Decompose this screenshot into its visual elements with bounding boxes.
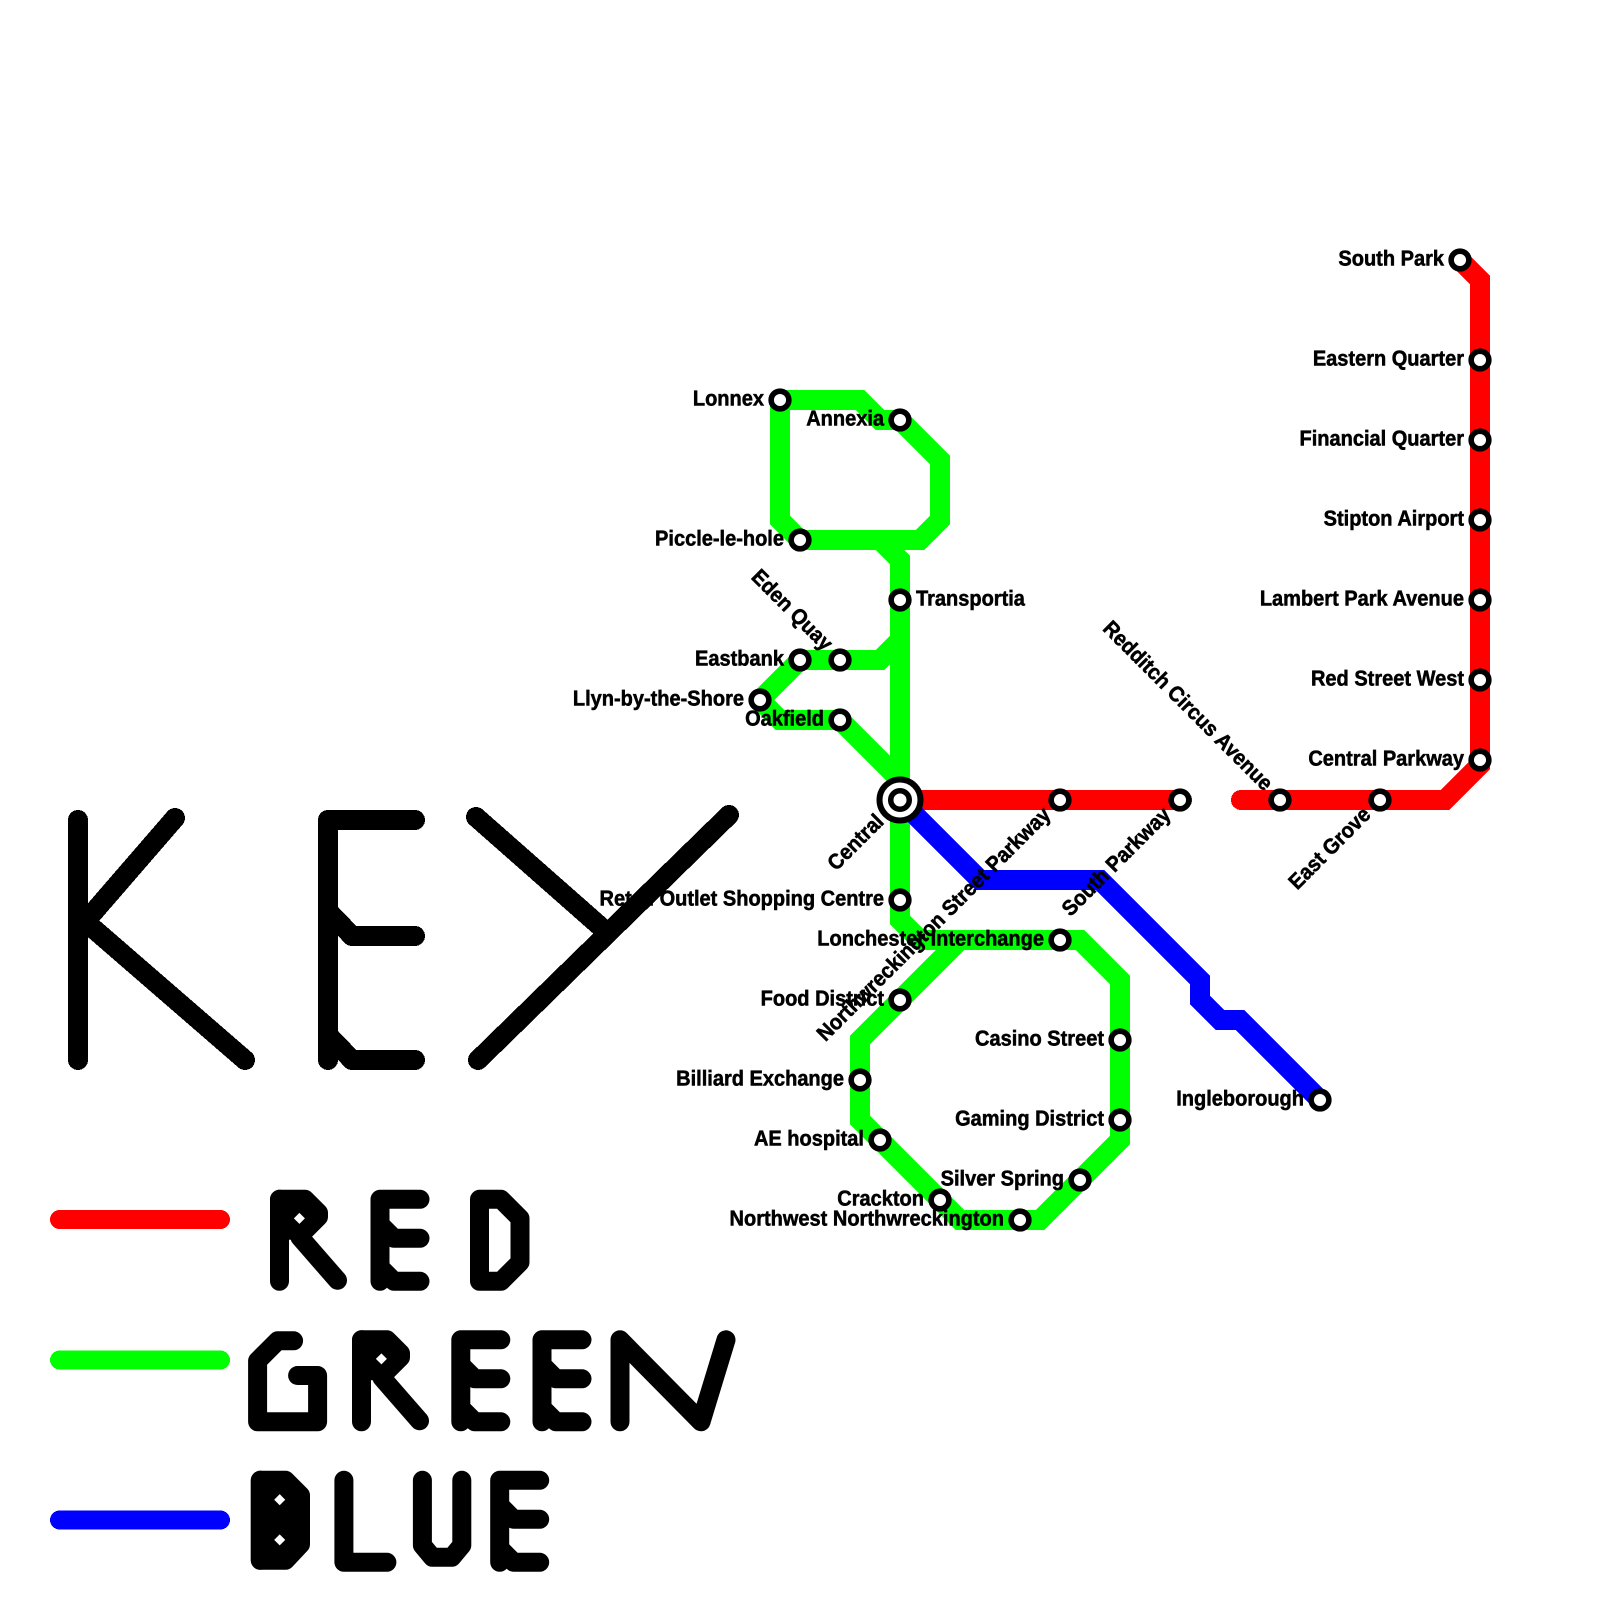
station Oakfield <box>831 711 849 729</box>
station Lonnex <box>771 391 789 409</box>
legend letter B <box>260 1480 300 1560</box>
legend red line swatch <box>60 1210 221 1229</box>
station Central Parkway <box>1471 751 1489 769</box>
svg-text:Stipton Airport: Stipton Airport <box>1324 507 1464 531</box>
STATIONS <box>751 251 1489 1229</box>
legend letter D <box>480 1199 521 1281</box>
svg-text:Financial Quarter: Financial Quarter <box>1300 427 1465 451</box>
wire green Piccle-le-hole-Transportia <box>800 540 900 600</box>
key letter K <box>78 818 245 1060</box>
wire green Lonchester-FoodDistrict <box>900 940 1060 1000</box>
wire green Casino-Gaming <box>1110 1040 1130 1120</box>
wire green Annexia-Piccle-le-hole loop right <box>800 420 940 540</box>
svg-text:Annexia: Annexia <box>806 407 885 431</box>
wire green EdenQuay-Eastbank <box>800 650 840 670</box>
wire green Billiard-FoodDistrict <box>860 1000 900 1080</box>
wire green Retail-Lonchester <box>900 900 1060 940</box>
station Billiard Exchange <box>851 1071 869 1089</box>
wire green SilverSpring-NWNorthwreckington <box>1020 1180 1080 1220</box>
station Piccle-le-hole <box>791 531 809 549</box>
BLUE LINE <box>900 800 1320 1100</box>
svg-text:Transportia: Transportia <box>916 587 1026 611</box>
station Ingleborough <box>1311 1091 1329 1109</box>
wire green AEhospital-Billiard <box>860 1080 880 1140</box>
KEY heading <box>78 815 729 1060</box>
wire green Eastbank-Llyn <box>760 660 800 700</box>
legend letter R <box>280 1199 319 1230</box>
legend word RED <box>280 1199 521 1281</box>
station Stipton Airport <box>1471 511 1489 529</box>
station Northwest Northwreckington <box>1011 1211 1029 1229</box>
legend green line swatch <box>60 1351 221 1370</box>
wire green Gaming-SilverSpring <box>1080 1120 1120 1180</box>
station Casino Street <box>1111 1031 1129 1049</box>
wire green Transportia-EdenQuay <box>840 600 900 660</box>
legend letter N <box>620 1340 726 1422</box>
wire green NWNorthwreckington-Crackton <box>940 1200 1020 1220</box>
legend letter G <box>258 1341 318 1422</box>
wire blue Central-Ingleborough <box>900 800 1320 1100</box>
station Gaming District <box>1111 1111 1129 1129</box>
legend letter U <box>422 1480 461 1557</box>
svg-text:Northwest Northwreckington: Northwest Northwreckington <box>730 1207 1004 1231</box>
wire green trunk Transportia-Central <box>890 600 910 800</box>
station Redditch Circus Avenue <box>1271 791 1289 809</box>
svg-text:Lambert Park Avenue: Lambert Park Avenue <box>1260 587 1464 611</box>
svg-text:Llyn-by-the-Shore: Llyn-by-the-Shore <box>573 687 744 711</box>
station Lambert Park Avenue <box>1471 591 1489 609</box>
station AE hospital <box>871 1131 889 1149</box>
station Food District <box>891 991 909 1009</box>
wire green Crackton-AEhospital <box>880 1140 940 1200</box>
station Red Street West <box>1471 671 1489 689</box>
station Annexia <box>891 411 909 429</box>
key letter Y <box>476 815 729 1060</box>
svg-text:Ingleborough: Ingleborough <box>1176 1087 1304 1111</box>
legend letter E2 <box>461 1340 501 1422</box>
svg-text:AE hospital: AE hospital <box>754 1127 864 1151</box>
station Eastern Quarter <box>1471 351 1489 369</box>
svg-text:Oakfield: Oakfield <box>745 707 824 731</box>
legend blue line swatch <box>60 1511 221 1530</box>
legend swatches <box>60 1220 221 1521</box>
wire green Lonnex-Piccle-le-hole left side <box>780 400 800 540</box>
station Transportia <box>891 591 909 609</box>
wire red Central-SouthParkway segment <box>900 790 1182 810</box>
wire green Lonnex-Annexia <box>780 400 900 420</box>
station East Grove <box>1371 791 1389 809</box>
station Financial Quarter <box>1471 431 1489 449</box>
station Eden Quay <box>831 651 849 669</box>
legend word BLUE <box>260 1480 539 1562</box>
wire red EastGrove-SouthPark segment <box>1241 260 1480 800</box>
station Silver Spring <box>1071 1171 1089 1189</box>
key letter E <box>328 820 415 1060</box>
svg-text:South Park: South Park <box>1338 247 1444 271</box>
svg-text:Eastbank: Eastbank <box>695 647 784 671</box>
svg-text:Lonnex: Lonnex <box>693 387 764 411</box>
svg-text:Eastern Quarter: Eastern Quarter <box>1313 347 1465 371</box>
station Retail Outlet Shopping Centre <box>891 891 909 909</box>
station Northwreckington Street Parkway <box>1051 791 1069 809</box>
station Central interchange <box>880 780 921 821</box>
RED LINE <box>900 260 1480 800</box>
station Lonchester Interchange <box>1051 931 1069 949</box>
svg-text:Red Street West: Red Street West <box>1311 667 1464 691</box>
svg-text:Central Parkway: Central Parkway <box>1308 747 1464 771</box>
legend letter R2 <box>362 1340 401 1371</box>
svg-text:Gaming District: Gaming District <box>955 1107 1104 1131</box>
station Eastbank <box>791 651 809 669</box>
svg-text:Piccle-le-hole: Piccle-le-hole <box>655 527 784 551</box>
legend letter E <box>380 1199 420 1281</box>
svg-text:Billiard Exchange: Billiard Exchange <box>676 1067 844 1091</box>
svg-text:Casino Street: Casino Street <box>975 1027 1104 1051</box>
wire green Oakfield-Central <box>840 720 900 800</box>
legend letter E3 <box>542 1340 582 1422</box>
wire green Llyn-Oakfield <box>760 700 840 720</box>
station Llyn-by-the-Shore <box>751 691 769 709</box>
station South Parkway <box>1171 791 1189 809</box>
wire green Central-Retail <box>890 800 910 900</box>
GREEN LINE <box>760 400 1120 1220</box>
legend letter L2 <box>344 1480 387 1562</box>
station South Park <box>1451 251 1469 269</box>
wire green Lonchester-Casino <box>1060 940 1120 1040</box>
svg-text:Silver Spring: Silver Spring <box>941 1167 1064 1191</box>
legend letter E4 <box>500 1480 540 1562</box>
legend word GREEN <box>258 1340 726 1422</box>
station Crackton <box>931 1191 949 1209</box>
